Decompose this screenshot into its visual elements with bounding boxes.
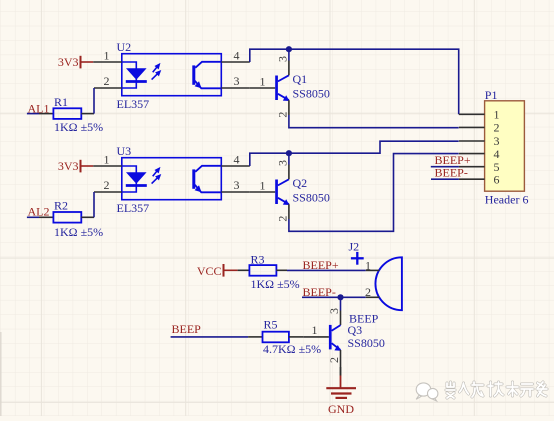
svg-text:1: 1 xyxy=(312,323,318,337)
U3 pin 4 xyxy=(221,165,250,167)
U2 LED xyxy=(122,62,147,88)
U3 emission arrows xyxy=(152,168,160,183)
svg-text:4: 4 xyxy=(494,147,500,161)
svg-text:Q2: Q2 xyxy=(293,176,308,190)
U3 LED xyxy=(122,166,147,192)
svg-text:2: 2 xyxy=(365,285,371,299)
optocoupler U3 xyxy=(93,144,250,215)
P1 pin 6 xyxy=(459,178,485,180)
svg-text:2: 2 xyxy=(275,112,289,118)
P1 pin 4 xyxy=(459,153,485,155)
resistor R3 xyxy=(238,252,300,291)
svg-text:3: 3 xyxy=(234,178,240,192)
svg-text:3: 3 xyxy=(234,74,240,88)
U3 pin 3 xyxy=(221,191,250,193)
P1 pin 2 xyxy=(459,126,485,128)
svg-text:3: 3 xyxy=(275,160,289,166)
power port 3V3 (second) xyxy=(58,159,93,173)
P1 pin 1 xyxy=(459,113,485,115)
buzzer pin 1 xyxy=(366,269,380,271)
wire Q2 emitter to P1 pin4 xyxy=(289,154,459,232)
svg-text:1KΩ ±5%: 1KΩ ±5% xyxy=(54,120,103,134)
svg-text:1KΩ ±5%: 1KΩ ±5% xyxy=(251,277,300,291)
svg-text:4.7KΩ ±5%: 4.7KΩ ±5% xyxy=(263,342,321,356)
U2 pin 4 xyxy=(221,61,250,63)
svg-text:R3: R3 xyxy=(251,252,265,266)
ground GND xyxy=(326,376,356,417)
svg-text:BEEP+: BEEP+ xyxy=(303,258,339,272)
svg-text:J2: J2 xyxy=(349,240,360,254)
power port VCC xyxy=(197,264,238,278)
U2 pin 1 xyxy=(93,61,122,63)
wire U2 pin4 to P1 pin1 xyxy=(250,49,459,114)
U2 pin 2 xyxy=(94,87,122,89)
U3 phototransistor xyxy=(192,166,221,193)
node junction Q1 collector xyxy=(286,46,292,52)
resistor R1 xyxy=(39,95,103,134)
svg-text:3V3: 3V3 xyxy=(58,55,79,69)
svg-text:1KΩ ±5%: 1KΩ ±5% xyxy=(54,225,103,239)
P1 pin 5 xyxy=(459,166,485,168)
svg-text:GND: GND xyxy=(328,402,354,416)
watermark text 嵌入式技术开发 xyxy=(446,382,547,398)
connector J2 plus mark xyxy=(349,240,364,265)
node junction Q2 collector xyxy=(286,150,292,156)
power port 3V3 (top) xyxy=(58,55,93,69)
wire Q1 emitter to P1 pin2 xyxy=(289,115,459,128)
svg-text:EL357: EL357 xyxy=(117,97,150,111)
svg-text:1: 1 xyxy=(494,108,500,122)
wire BEEP to R5 xyxy=(171,336,249,338)
wire AL2 to R2 xyxy=(27,216,39,218)
resistor R2 xyxy=(39,198,103,239)
svg-text:6: 6 xyxy=(494,172,500,186)
U2 pin 3 xyxy=(221,87,250,89)
optocoupler U2 xyxy=(93,40,250,111)
svg-text:2: 2 xyxy=(327,357,341,363)
svg-text:R1: R1 xyxy=(54,95,68,109)
svg-text:R5: R5 xyxy=(264,318,278,332)
U3 pin 2 xyxy=(94,191,122,193)
wire BEEP- stub to P1 pin6 xyxy=(431,178,459,180)
svg-text:1: 1 xyxy=(260,74,266,88)
svg-text:2: 2 xyxy=(104,178,110,192)
svg-text:U2: U2 xyxy=(117,40,132,54)
U2 emission arrows xyxy=(152,64,160,79)
svg-text:U3: U3 xyxy=(117,144,132,158)
svg-text:2: 2 xyxy=(275,216,289,222)
wire BEEP+ to buzzer pin1 xyxy=(287,269,366,271)
wire R1 to U2 pin2 xyxy=(93,88,95,114)
svg-text:BEEP-: BEEP- xyxy=(435,165,468,179)
svg-text:SS8050: SS8050 xyxy=(293,191,330,205)
transistor Q1 xyxy=(250,49,330,117)
wire BEEP+ stub to P1 pin5 xyxy=(431,166,459,168)
header P1 xyxy=(459,88,529,207)
U2 phototransistor xyxy=(192,62,221,89)
svg-text:Q1: Q1 xyxy=(293,72,308,86)
wire U3 pin4 to P1 pin3 xyxy=(250,141,459,166)
svg-text:3V3: 3V3 xyxy=(58,159,79,173)
wire AL1 to R1 xyxy=(27,113,39,115)
svg-text:SS8050: SS8050 xyxy=(293,87,330,101)
svg-text:Q3: Q3 xyxy=(348,323,363,337)
svg-text:3: 3 xyxy=(275,56,289,62)
resistor R5 xyxy=(248,318,321,356)
transistor Q2 xyxy=(250,153,330,221)
svg-text:2: 2 xyxy=(494,121,500,135)
svg-text:SS8050: SS8050 xyxy=(348,336,385,350)
svg-text:R2: R2 xyxy=(54,198,68,212)
transistor Q3 xyxy=(303,297,385,375)
svg-text:P1: P1 xyxy=(485,88,498,102)
wire R2 to U3 pin2 xyxy=(93,192,95,217)
buzzer J2 xyxy=(365,257,402,310)
svg-text:BEEP: BEEP xyxy=(172,322,202,336)
svg-text:4: 4 xyxy=(234,48,240,62)
U3 pin 1 xyxy=(93,165,122,167)
wire Q3 emitter to GND xyxy=(340,367,342,376)
svg-text:2: 2 xyxy=(104,74,110,88)
P1 pin 3 xyxy=(459,140,485,142)
svg-text:1: 1 xyxy=(365,258,371,272)
buzzer pin 2 xyxy=(366,296,380,298)
svg-text:EL357: EL357 xyxy=(117,201,150,215)
svg-text:4: 4 xyxy=(234,152,240,166)
wire BEEP- to buzzer pin2 xyxy=(302,296,366,298)
svg-text:1: 1 xyxy=(260,178,266,192)
svg-text:VCC: VCC xyxy=(197,264,222,278)
node junction BEEP- / Q3 collector xyxy=(337,294,343,300)
watermark wechat icon xyxy=(416,383,438,401)
svg-text:Header 6: Header 6 xyxy=(485,193,529,207)
svg-text:1: 1 xyxy=(104,49,110,63)
svg-text:3: 3 xyxy=(327,308,341,314)
svg-text:BEEP-: BEEP- xyxy=(303,285,336,299)
svg-text:1: 1 xyxy=(104,153,110,167)
